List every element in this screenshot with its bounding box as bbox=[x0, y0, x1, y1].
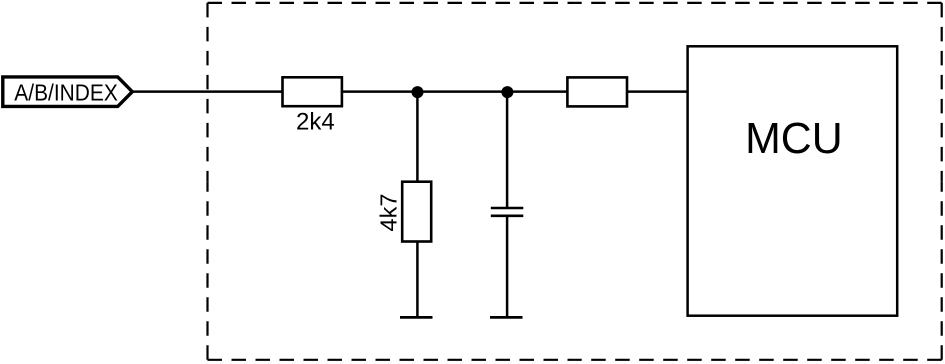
wire flag to R1 bbox=[132, 90, 284, 93]
wire R2 to MCU bbox=[626, 90, 689, 93]
svg-text:4k7: 4k7 bbox=[375, 194, 401, 232]
dashed boundary box bbox=[208, 3, 942, 360]
wire junction B down to C1 bbox=[506, 92, 509, 208]
MCU U1 body bbox=[688, 46, 898, 315]
ground under C1 bbox=[490, 316, 523, 319]
wire C1 to ground bbox=[506, 216, 509, 318]
capacitor C1 bottom plate bbox=[491, 215, 524, 218]
net label flag A/B/INDEX bbox=[3, 77, 133, 107]
capacitor C1 top plate bbox=[491, 207, 524, 210]
ground under R3 bbox=[400, 316, 433, 319]
wire junction A down to R3 bbox=[416, 92, 419, 182]
wire R3 to ground bbox=[416, 241, 419, 317]
resistor R1 body bbox=[283, 77, 342, 106]
resistor R3 body (vertical) bbox=[402, 182, 431, 242]
junction node A bbox=[412, 86, 424, 98]
resistor R2 body bbox=[567, 77, 627, 106]
svg-text:2k4: 2k4 bbox=[296, 109, 335, 136]
svg-text:MCU: MCU bbox=[745, 114, 843, 163]
wire R1 to R2 bbox=[341, 90, 568, 93]
junction node B bbox=[501, 86, 513, 98]
svg-text:A/B/INDEX: A/B/INDEX bbox=[14, 80, 118, 106]
